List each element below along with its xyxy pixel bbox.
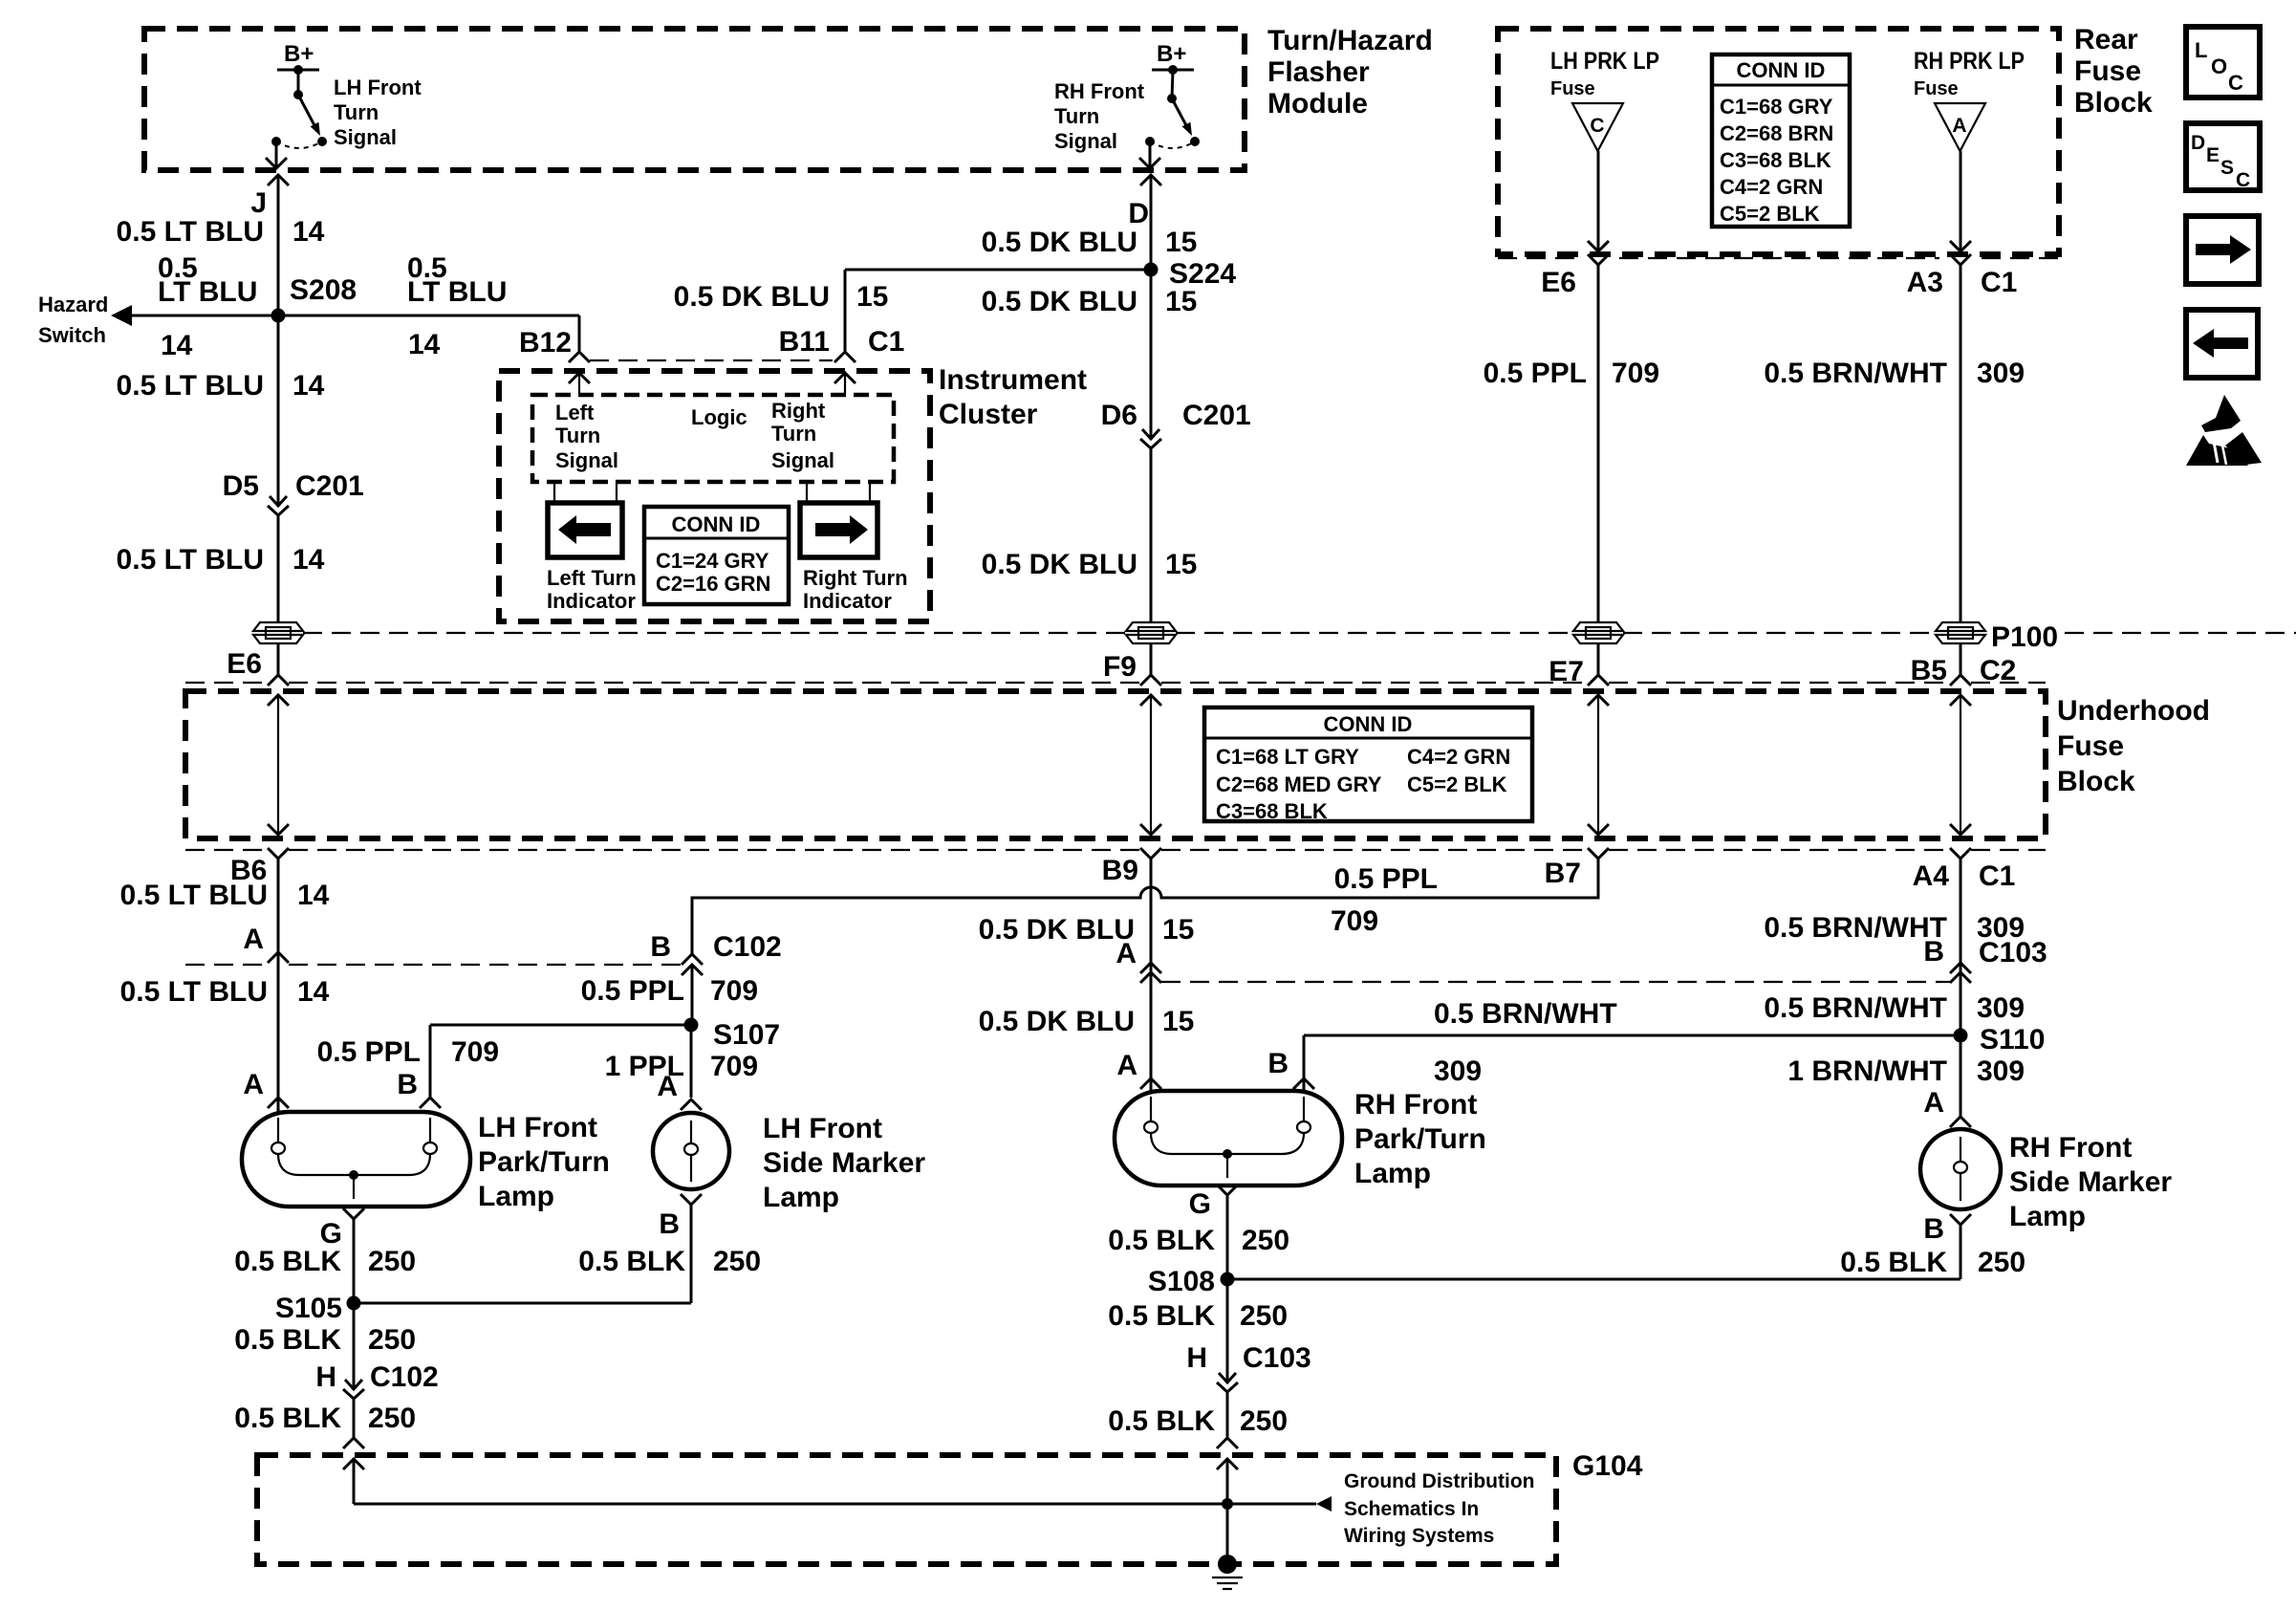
connector B12 [569,352,590,362]
grommet P100 on DK BLU [1126,622,1176,643]
svg-text:A3: A3 [1907,267,1943,298]
svg-text:C1=24 GRY: C1=24 GRY [656,549,769,573]
CONN ID table (rear fuse block) [1712,54,1850,227]
P100 pass-through dashed line [303,632,1126,634]
internal wire E6-B6 [277,695,279,835]
Rear Fuse Block box [1498,29,2059,254]
svg-text:C1: C1 [1981,267,2017,298]
wire DK BLU S224 down [1150,270,1153,438]
svg-text:0.5 LT BLU: 0.5 LT BLU [120,880,268,911]
wire ground bus horizontal [354,1503,1316,1506]
switch RH Front Turn Signal (inside module) [1054,41,1200,169]
svg-text:A: A [1116,1050,1137,1081]
svg-text:15: 15 [1165,549,1197,580]
svg-text:C1=68 GRY: C1=68 GRY [1720,95,1833,119]
wire B LH side marker down [681,1194,702,1205]
wire LT BLU to P100 [277,515,280,622]
svg-text:B: B [650,931,671,963]
svg-text:C2=68 MED GRY: C2=68 MED GRY [1216,772,1382,796]
svg-text:Logic: Logic [691,405,747,429]
svg-text:0.5 PPL: 0.5 PPL [581,975,684,1007]
svg-text:E: E [2206,144,2220,166]
svg-text:709: 709 [710,1051,758,1082]
svg-text:0.5 BLK: 0.5 BLK [1108,1225,1215,1256]
svg-text:15: 15 [1162,914,1194,946]
splice S105 [347,1296,361,1311]
wire PPL B7 to C102 with hop over DK BLU [692,859,1598,954]
svg-text:Signal: Signal [555,448,618,472]
wire BLK to G104 [353,1399,356,1438]
svg-text:0.5 DK BLU: 0.5 DK BLU [982,549,1137,580]
wire F9 segment [1150,642,1153,675]
svg-text:C1: C1 [868,326,904,358]
svg-text:15: 15 [1162,1006,1194,1037]
svg-text:C1=68 LT GRY: C1=68 LT GRY [1216,745,1359,769]
svg-text:Turn: Turn [555,424,600,447]
svg-text:C2=68 BRN: C2=68 BRN [1720,121,1833,145]
svg-text:250: 250 [1242,1225,1289,1256]
svg-text:14: 14 [292,370,325,402]
Logic box [532,395,894,482]
svg-text:Schematics In: Schematics In [1344,1498,1479,1520]
svg-text:D: D [1128,198,1149,229]
svg-text:LT BLU: LT BLU [407,276,507,308]
wire G LH park/turn lamp down [343,1208,364,1219]
svg-text:0.5 BLK: 0.5 BLK [234,1403,341,1434]
G104 box [257,1455,1556,1564]
svg-text:B: B [1923,936,1944,968]
svg-text:0.5 BLK: 0.5 BLK [234,1246,341,1277]
splice S110 [1954,1029,1968,1043]
svg-text:Rear: Rear [2074,24,2138,55]
Turn/Hazard Flasher Module box [144,29,1245,170]
CONN ID table (instrument cluster) [644,507,789,604]
svg-text:Turn/Hazard: Turn/Hazard [1267,25,1433,56]
svg-text:C5=2 BLK: C5=2 BLK [1720,202,1820,226]
svg-text:E6: E6 [1541,267,1576,298]
svg-text:S: S [2220,157,2234,179]
svg-text:B7: B7 [1545,858,1581,889]
svg-text:C4=2 GRN: C4=2 GRN [1720,175,1823,199]
svg-text:C102: C102 [713,931,782,963]
svg-text:A: A [1952,115,1966,137]
lamp LH Front Side Marker [653,1113,729,1189]
Right Turn Indicator [800,503,877,557]
svg-text:1 BRN/WHT: 1 BRN/WHT [1787,1055,1947,1087]
svg-text:C: C [2228,71,2243,95]
wire 1 PPL S107 to side marker [690,1025,693,1098]
svg-text:250: 250 [368,1324,416,1356]
wire B5/C2 segment [1960,642,1962,675]
connector C103 face line [1161,981,1950,983]
svg-text:0.5 PPL: 0.5 PPL [1334,863,1438,895]
svg-text:CONN ID: CONN ID [1324,712,1413,736]
svg-text:15: 15 [856,281,888,313]
svg-text:B+: B+ [284,41,314,67]
svg-text:Indicator: Indicator [803,589,892,613]
svg-text:LH Front: LH Front [334,76,422,99]
svg-text:Ground Distribution: Ground Distribution [1344,1470,1534,1492]
wire S208 to B12 [278,315,579,317]
svg-text:709: 709 [1331,905,1378,937]
wire BLK S108 down [1226,1279,1229,1382]
wire LH ground inside G104 [353,1459,356,1504]
svg-text:Wiring Systems: Wiring Systems [1344,1525,1494,1547]
svg-text:0.5 BLK: 0.5 BLK [578,1246,685,1277]
DESC box [2186,123,2260,191]
svg-text:LT BLU: LT BLU [158,276,257,308]
svg-text:CONN ID: CONN ID [672,512,761,536]
ground G104 [1218,1555,1237,1574]
Instrument Cluster box [499,371,930,621]
wire BRN/WHT A4/C1 down [1960,859,1962,1035]
svg-text:B+: B+ [1157,41,1186,67]
svg-text:Park/Turn: Park/Turn [478,1146,610,1178]
svg-text:Right Turn: Right Turn [803,566,908,590]
svg-text:Turn: Turn [771,422,816,446]
svg-text:14: 14 [297,976,330,1008]
svg-text:Side Marker: Side Marker [2009,1166,2172,1198]
svg-text:S108: S108 [1148,1266,1215,1297]
svg-text:RH Front: RH Front [2009,1132,2132,1164]
connector B C102 [682,954,703,965]
svg-text:Turn: Turn [334,100,379,124]
svg-text:0.5 BLK: 0.5 BLK [234,1324,341,1356]
svg-text:0.5 LT BLU: 0.5 LT BLU [117,370,264,402]
svg-text:Underhood: Underhood [2057,695,2210,727]
svg-text:309: 309 [1434,1055,1482,1087]
wire branch S107 to LH lamp B [430,1024,691,1027]
svg-text:Fuse: Fuse [1550,78,1595,99]
svg-text:Block: Block [2057,766,2135,797]
wire RH lamp B up to S110 horizontal [1303,1035,1306,1091]
svg-text:A: A [657,1071,678,1102]
svg-text:14: 14 [161,330,193,361]
svg-text:709: 709 [710,975,758,1007]
connector face line B12-B11 [590,359,833,361]
junction [1222,1498,1233,1510]
svg-text:F9: F9 [1103,651,1137,683]
wire PPL C102 to S107 [691,965,694,1025]
svg-text:Indicator: Indicator [547,589,636,613]
svg-text:C103: C103 [1243,1342,1311,1374]
wire PPL fuse to P100 [1597,265,1600,622]
svg-text:Cluster: Cluster [939,399,1038,430]
svg-text:15: 15 [1165,286,1197,317]
wire stubs logic to indicators [553,482,555,503]
svg-text:A: A [1116,938,1137,969]
svg-text:CONN ID: CONN ID [1737,58,1826,82]
svg-text:309: 309 [1977,1055,2025,1087]
svg-text:Block: Block [2074,87,2153,119]
svg-text:D6: D6 [1101,400,1137,431]
svg-text:LH Front: LH Front [763,1113,882,1144]
svg-text:250: 250 [1978,1247,2025,1278]
svg-text:0.5 BRN/WHT: 0.5 BRN/WHT [1764,912,1947,944]
grommet P100 on BRN/WHT [1936,622,1985,643]
wire DK BLU to P100 [1150,448,1153,622]
Left Turn Indicator [548,503,622,557]
wire LT BLU B6 down to lamp [277,859,280,1112]
svg-text:C: C [1590,115,1604,137]
wire LT BLU from module to S208 [277,175,280,315]
svg-text:A: A [1923,1087,1944,1119]
wire RH ground inside G104 [1226,1459,1229,1564]
wire DK BLU from module to S224 [1150,175,1153,270]
splice S108 [1221,1273,1235,1287]
svg-text:S110: S110 [1980,1024,2045,1055]
svg-text:0.5 LT BLU: 0.5 LT BLU [117,216,264,248]
svg-text:14: 14 [408,329,441,360]
svg-text:RH Front: RH Front [1354,1089,1477,1120]
connector C102 face line [185,964,268,966]
svg-text:RH PRK LP: RH PRK LP [1914,48,2025,75]
svg-text:LH Front: LH Front [478,1112,597,1143]
svg-text:Fuse: Fuse [1914,78,1959,99]
svg-text:D5: D5 [223,470,259,502]
wire to Hazard Switch [132,315,278,317]
svg-text:Signal: Signal [334,125,397,149]
svg-text:0.5 BLK: 0.5 BLK [1108,1405,1215,1437]
connector B7 [1588,848,1609,859]
svg-text:E6: E6 [227,648,262,680]
lamp RH Front Park/Turn [1115,1091,1342,1186]
svg-text:309: 309 [1977,358,2025,389]
svg-text:H: H [315,1361,336,1393]
svg-text:0.5 PPL: 0.5 PPL [1484,358,1587,389]
fuse LH PRK LP [1550,48,1659,251]
svg-text:Module: Module [1267,88,1368,120]
svg-text:Switch: Switch [38,323,106,347]
svg-text:RH Front: RH Front [1054,79,1145,103]
svg-text:LH PRK LP: LH PRK LP [1550,48,1659,75]
svg-text:S105: S105 [275,1293,342,1324]
svg-text:B9: B9 [1102,855,1138,886]
svg-text:S107: S107 [713,1019,780,1051]
svg-text:C103: C103 [1979,937,2047,968]
svg-text:L: L [2195,38,2207,62]
left turn signal input arrow [578,373,580,393]
svg-text:H: H [1186,1342,1207,1374]
svg-text:C1: C1 [1979,860,2015,892]
svg-text:A: A [243,924,264,955]
svg-text:Signal: Signal [1054,129,1117,153]
internal wire F9-B9 [1150,695,1152,835]
grommet P100 on PPL [1573,622,1623,643]
svg-text:S208: S208 [290,274,357,306]
lamp LH Front Park/Turn [242,1112,470,1207]
svg-text:15: 15 [1165,227,1197,258]
svg-text:0.5 BRN/WHT: 0.5 BRN/WHT [1764,358,1947,389]
wire branch S224 to B11 [845,269,1151,272]
switch LH Front Turn Signal (inside module) [266,41,422,169]
svg-text:0.5 BRN/WHT: 0.5 BRN/WHT [1764,992,1947,1024]
connector B9 [1140,848,1161,859]
svg-text:Fuse: Fuse [2074,55,2141,87]
svg-text:P100: P100 [1991,621,2058,653]
wire branch S110 to RH lamp B [1304,1034,1960,1037]
svg-text:Signal: Signal [771,448,834,472]
svg-text:J: J [250,187,267,219]
left arrow box [2186,310,2258,378]
wire BLK S105 down [353,1303,356,1389]
svg-text:B11: B11 [779,326,830,358]
wire E6 segment [277,642,280,675]
grommet P100 on LT BLU [253,622,303,643]
svg-text:Lamp: Lamp [1354,1158,1431,1189]
svg-text:709: 709 [451,1036,499,1068]
connector E6 (rear) [1588,254,1609,265]
svg-text:0.5 DK BLU: 0.5 DK BLU [982,286,1137,317]
svg-text:309: 309 [1977,992,2025,1024]
Underhood Fuse Block box [185,691,2046,838]
node D connector [1140,175,1161,185]
fuse RH PRK LP [1914,48,2025,251]
connector B11/C1 [834,352,856,362]
svg-text:250: 250 [368,1403,416,1434]
svg-text:C5=2 BLK: C5=2 BLK [1407,772,1507,796]
svg-text:0.5 DK BLU: 0.5 DK BLU [982,227,1137,258]
svg-text:D: D [2191,132,2205,154]
svg-text:0.5 BLK: 0.5 BLK [1840,1247,1947,1278]
svg-text:C: C [2236,169,2250,191]
wire E7 segment [1597,642,1600,675]
node J connector [268,175,289,185]
ESD symbol [2186,395,2262,466]
right arrow box [2186,216,2259,284]
wire LT BLU S208 down [277,315,280,505]
svg-text:C3=68 BLK: C3=68 BLK [1216,799,1328,823]
svg-text:Lamp: Lamp [763,1182,839,1213]
svg-text:G104: G104 [1572,1450,1643,1482]
svg-text:Side Marker: Side Marker [763,1147,925,1179]
svg-text:C201: C201 [1182,400,1251,431]
svg-text:0.5 DK BLU: 0.5 DK BLU [979,1006,1135,1037]
svg-text:A4: A4 [1913,860,1950,892]
svg-text:C3=68 BLK: C3=68 BLK [1720,148,1831,172]
svg-text:14: 14 [292,216,325,248]
wire BRN/WHT fuse to P100 [1960,265,1962,622]
wire BLK to G104 [1226,1392,1229,1438]
connector A4 C1 [1950,848,1971,859]
svg-text:Park/Turn: Park/Turn [1354,1123,1486,1155]
svg-text:O: O [2211,54,2227,78]
connector face line above underhood box [185,682,268,684]
wire G RH park/turn lamp down [1217,1185,1238,1195]
svg-text:Instrument: Instrument [939,364,1087,396]
svg-text:14: 14 [292,544,325,576]
svg-text:G: G [1189,1188,1211,1220]
svg-text:250: 250 [1240,1300,1288,1332]
rear block connector face line [1498,257,1577,259]
splice S208 [271,309,286,323]
right turn signal input arrow [844,373,846,393]
svg-text:0.5 BRN/WHT: 0.5 BRN/WHT [1434,998,1617,1030]
svg-text:B: B [1923,1213,1944,1245]
svg-text:Left: Left [555,401,595,424]
svg-text:250: 250 [1240,1405,1288,1437]
splice S224 [1144,263,1159,277]
internal wire E7-B7 [1597,695,1599,835]
svg-text:0.5 DK BLU: 0.5 DK BLU [674,281,830,313]
svg-text:B: B [397,1069,418,1100]
svg-text:B: B [1267,1048,1289,1079]
svg-text:Fuse: Fuse [2057,730,2124,762]
svg-text:Right: Right [771,399,826,423]
svg-text:Flasher: Flasher [1267,56,1370,88]
wire DK BLU B9 down to RH lamp [1150,859,1153,1091]
svg-text:Lamp: Lamp [478,1181,554,1212]
CONN ID table (underhood) [1204,707,1532,823]
svg-text:C2=16 GRN: C2=16 GRN [656,572,770,596]
LOC box [2186,27,2260,98]
connector face line below underhood box [185,849,268,851]
svg-text:A: A [243,1069,264,1100]
svg-text:Lamp: Lamp [2009,1201,2086,1232]
svg-text:B: B [659,1208,680,1240]
svg-text:Hazard: Hazard [38,293,108,316]
svg-text:250: 250 [713,1246,761,1277]
svg-text:C201: C201 [295,470,364,502]
svg-text:0.5 PPL: 0.5 PPL [317,1036,421,1068]
connector B6 [268,848,289,859]
svg-text:0.5 DK BLU: 0.5 DK BLU [979,914,1135,946]
svg-text:B12: B12 [519,327,572,359]
svg-text:0.5 LT BLU: 0.5 LT BLU [117,544,264,576]
svg-text:Turn: Turn [1054,104,1099,128]
svg-text:250: 250 [368,1246,416,1277]
connector A3 C1 [1950,254,1971,265]
svg-text:0.5 LT BLU: 0.5 LT BLU [120,976,268,1008]
wire B RH side marker down to S108 run [1950,1214,1971,1225]
svg-text:0.5 BLK: 0.5 BLK [1108,1300,1215,1332]
svg-text:C102: C102 [370,1361,439,1393]
wire 1 BRN/WHT S110 down [1960,1035,1962,1117]
internal wire B5-A4 [1960,695,1961,835]
svg-text:C4=2 GRN: C4=2 GRN [1407,745,1510,769]
svg-text:709: 709 [1612,358,1659,389]
svg-text:14: 14 [297,880,330,911]
lamp RH Front Side Marker [1920,1129,2001,1209]
svg-text:Left Turn: Left Turn [547,566,637,590]
splice S107 [684,1018,699,1033]
